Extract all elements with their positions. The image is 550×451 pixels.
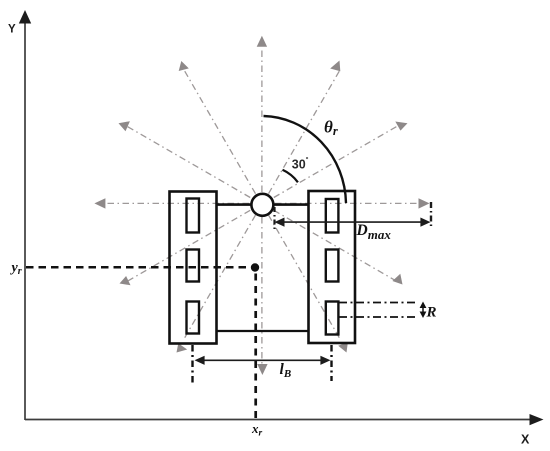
ray 120deg — [184, 69, 256, 194]
ray 60deg — [269, 69, 341, 194]
left wheel tread top — [187, 199, 200, 233]
R arrow up head — [420, 302, 427, 309]
ray 330deg — [274, 210, 399, 282]
l_B dimension arrow line — [197, 359, 328, 361]
arrowhead 120deg — [179, 61, 189, 71]
ray 240deg — [184, 215, 256, 340]
X axis — [25, 419, 531, 421]
D_max right arrowhead — [420, 218, 430, 227]
arrowhead 150deg — [119, 121, 130, 131]
right wheel tread bottom — [326, 302, 339, 335]
arrowhead 30deg — [395, 122, 407, 131]
l_B right extension mark — [330, 345, 332, 381]
sonar beam rays (12 at 30 deg intervals), gray dash-dot, drawn first — [105, 47, 419, 364]
ray 30deg — [274, 126, 399, 198]
arrowhead 60deg — [330, 61, 340, 72]
R arrow down head — [420, 312, 427, 319]
arrowhead 330deg — [392, 274, 402, 285]
D_max left arrowhead — [274, 218, 284, 227]
D_max left extension mark — [273, 207, 275, 229]
arrowhead 90deg — [257, 36, 267, 47]
ray 150deg — [126, 126, 251, 198]
svg-text:X: X — [521, 433, 530, 447]
ray 300deg — [269, 215, 341, 340]
ray 210deg — [126, 210, 251, 282]
left wheel tread bottom — [187, 302, 200, 334]
R dimension bottom dash-dot line — [339, 316, 416, 318]
ray 270deg (down) — [261, 217, 263, 364]
R double arrow — [422, 305, 424, 315]
R dimension top dash-dot line — [339, 302, 416, 304]
30 degree arc — [283, 170, 298, 183]
sonar ray arrowheads, gray triangles at tips — [94, 36, 429, 375]
arrowhead 270deg — [257, 364, 267, 375]
x_r dashed line — [254, 274, 257, 419]
left wheel tread middle — [187, 250, 200, 282]
D_max dimension arrow line — [277, 221, 428, 223]
arrowhead 0deg — [419, 198, 430, 208]
left wheel outer rect — [170, 192, 217, 344]
ray 180deg (left) — [105, 202, 249, 204]
arrowhead 240deg — [177, 343, 188, 352]
ray 0deg (right) — [275, 202, 419, 204]
robot center dot — [251, 263, 259, 271]
right wheel tread top — [326, 199, 339, 233]
svg-text:R: R — [426, 305, 437, 321]
svg-text:Y: Y — [8, 24, 16, 36]
Y axis arrowhead — [19, 10, 31, 24]
theta_r arc — [264, 116, 347, 203]
ray 90deg (up) — [261, 47, 263, 192]
Y axis — [24, 22, 26, 420]
axle line between wheels — [217, 203, 309, 206]
D_max right extension mark — [430, 202, 432, 229]
l_B left extension mark — [191, 345, 193, 385]
X axis arrowhead — [530, 414, 544, 425]
right wheel tread middle — [326, 250, 339, 282]
l_B left arrowhead — [195, 356, 205, 365]
l_B right arrowhead — [320, 356, 330, 365]
right wheel outer rect — [309, 191, 356, 343]
sonar sensor circle — [251, 194, 273, 216]
arrowhead 300deg — [338, 342, 348, 353]
arrowhead 180deg — [94, 198, 105, 208]
arrowhead 210deg — [120, 276, 131, 285]
y_r dashed line — [26, 266, 251, 269]
robot body bottom line — [217, 330, 309, 332]
